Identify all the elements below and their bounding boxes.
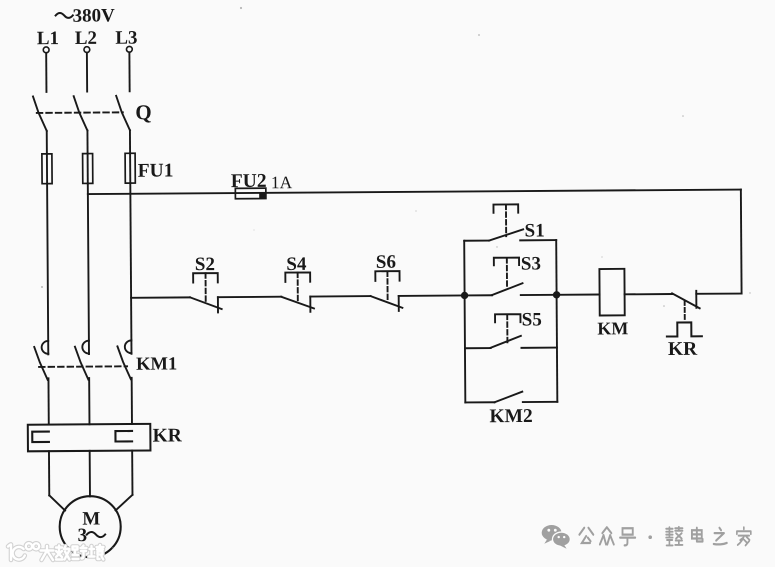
svg-text:3: 3 — [77, 525, 87, 546]
svg-text:L1: L1 — [37, 28, 59, 49]
svg-text:FU1: FU1 — [138, 160, 174, 181]
svg-text:S5: S5 — [522, 309, 542, 330]
svg-text:KM1: KM1 — [136, 354, 177, 374]
svg-text:S3: S3 — [521, 253, 541, 274]
svg-text:S2: S2 — [195, 254, 215, 275]
svg-text:KR: KR — [668, 339, 698, 360]
svg-text:KM: KM — [597, 318, 628, 338]
svg-text:L2: L2 — [75, 28, 97, 49]
svg-text:KR: KR — [152, 425, 182, 446]
svg-text:L3: L3 — [115, 28, 137, 49]
svg-text:1A: 1A — [271, 172, 293, 192]
svg-text:S6: S6 — [376, 252, 396, 273]
svg-text:Q: Q — [135, 100, 152, 124]
svg-text:S1: S1 — [525, 220, 545, 241]
svg-text:380V: 380V — [73, 5, 116, 26]
svg-text:S4: S4 — [286, 254, 307, 275]
svg-text:KM2: KM2 — [489, 406, 532, 427]
svg-text:FU2: FU2 — [231, 171, 267, 192]
